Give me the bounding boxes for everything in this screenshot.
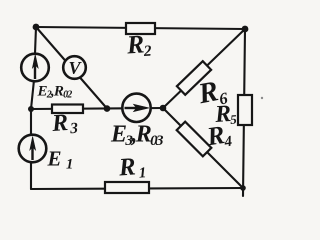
svg-text:V: V bbox=[68, 58, 82, 78]
